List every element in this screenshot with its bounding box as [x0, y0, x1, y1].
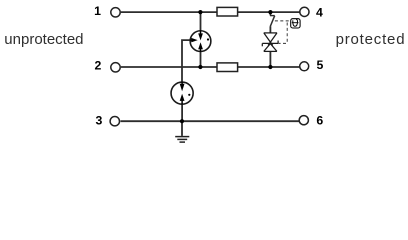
svg-text:4: 4	[316, 6, 323, 20]
svg-text:2: 2	[95, 59, 102, 73]
svg-text:unprotected: unprotected	[4, 31, 83, 48]
svg-text:5: 5	[317, 58, 324, 72]
svg-text:3: 3	[95, 113, 102, 127]
svg-text:6: 6	[316, 113, 323, 127]
svg-text:1: 1	[94, 4, 101, 18]
svg-text:protected: protected	[336, 31, 406, 48]
